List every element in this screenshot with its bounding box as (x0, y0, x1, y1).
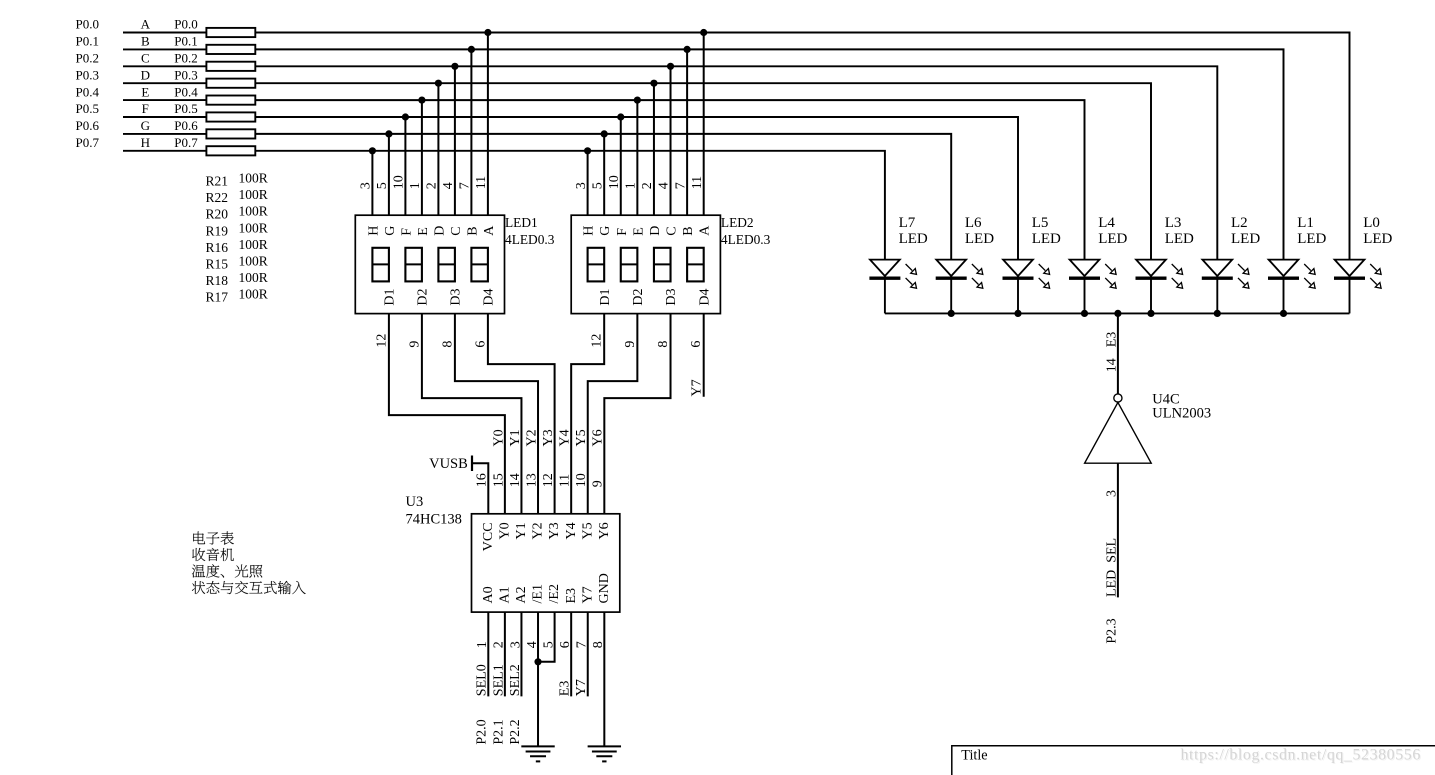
svg-text:https://blog.csdn.net/qq_52380: https://blog.csdn.net/qq_52380556 (1181, 747, 1421, 764)
wire net F row to LED L2 anode (255, 117, 1018, 260)
svg-text:Title: Title (961, 747, 987, 763)
wire LED2 pin 2 (D) (653, 83, 655, 215)
pin number 16 of U3 (475, 473, 490, 487)
pin number 6 of LED2 (D4) (689, 341, 704, 348)
wire net G row to LED L1 anode (255, 134, 951, 260)
svg-text:P0.0: P0.0 (76, 17, 99, 32)
resistor R21 100R (206, 28, 255, 37)
svg-text:Y0: Y0 (497, 522, 512, 539)
svg-text:C: C (141, 51, 150, 66)
wire P0.1 to resistor R22 (123, 48, 206, 50)
wire LED1 pin 4 (C) (454, 66, 456, 215)
title block label Title (961, 747, 987, 763)
wire P0.0 to resistor R21 (123, 32, 206, 34)
svg-text:1: 1 (624, 182, 639, 189)
svg-text:3: 3 (359, 182, 374, 189)
svg-text:100R: 100R (239, 237, 268, 252)
wire U3 pin6 E3 (570, 612, 572, 696)
svg-text:100R: 100R (239, 187, 268, 202)
pin number 12 of LED2 (D1) (590, 334, 605, 348)
pin number 14 of U4C (1105, 358, 1120, 372)
port P2.2 (508, 719, 523, 744)
pin number 5 of LED1 (375, 182, 390, 189)
svg-text:Y6: Y6 (597, 522, 612, 539)
resistor R15 100R (206, 112, 255, 121)
svg-text:D3: D3 (449, 288, 464, 305)
svg-text:Y7: Y7 (690, 379, 705, 396)
svg-text:9: 9 (623, 341, 638, 348)
junction P0.3 at LED2 pin (650, 80, 657, 87)
net label Y5 (574, 429, 589, 446)
wire LED1 D4 to U3 Y3 (488, 314, 555, 514)
wire VUSB to U3 VCC pin 16 (472, 463, 488, 514)
pin number 8 of U3 (591, 641, 606, 648)
net label Y2 (524, 429, 539, 446)
svg-text:P2.3: P2.3 (1105, 618, 1120, 643)
pin number 7 of LED2 (673, 182, 688, 189)
wire U3 pin4 /E1 to ground (537, 612, 539, 746)
wire LED2 D4 net Y7 stub (703, 314, 705, 397)
port P2.0 (475, 719, 490, 744)
svg-text:D1: D1 (383, 288, 398, 305)
wire LED1 pin 11 (A) (487, 33, 489, 216)
designator label L0 LED (1363, 215, 1392, 247)
wire LED2 D2 to U3 Y5 (588, 314, 638, 514)
svg-text:E: E (631, 227, 646, 236)
LED L4 (1069, 260, 1116, 314)
wire LED2 D3 to U3 Y6 (604, 314, 670, 514)
resistor designator labels R21,R22,R20,R19,R16,R15,R18,R17 with values (206, 171, 268, 305)
svg-text:E3: E3 (564, 588, 579, 604)
svg-text:P0.3: P0.3 (76, 67, 99, 82)
svg-text:Y7: Y7 (574, 679, 589, 696)
svg-text:/E2: /E2 (547, 584, 562, 603)
svg-text:100R: 100R (239, 171, 268, 186)
svg-text:10: 10 (392, 175, 407, 189)
node P0.0 labels (76, 17, 198, 32)
designator label L6 LED (965, 215, 994, 247)
svg-text:GND: GND (597, 573, 612, 603)
wire net C row to LED L5 anode (255, 66, 1217, 259)
pin number 9 of LED2 (D2) (623, 341, 638, 348)
net label Y4 (558, 429, 573, 446)
junction P0.1 at LED1 pin (468, 46, 475, 53)
pin number 5 of U3 (541, 641, 556, 648)
pin number 3 of LED1 (359, 182, 374, 189)
svg-text:R16: R16 (206, 240, 229, 255)
wire LED2 pin 10 (F) (620, 117, 622, 215)
junction bus at L2 (1214, 310, 1221, 317)
svg-text:R21: R21 (206, 174, 229, 189)
svg-text:3: 3 (574, 182, 589, 189)
ground symbol 1 (521, 746, 554, 761)
svg-text:A: A (141, 17, 151, 32)
designator label LED2 4LED0.3 (721, 215, 771, 247)
svg-text:11: 11 (474, 176, 489, 189)
junction P0.4 at LED2 pin (634, 97, 641, 104)
svg-text:Y1: Y1 (508, 429, 523, 446)
pin number 1 of LED1 (408, 182, 423, 189)
svg-text:ULN2003: ULN2003 (1152, 406, 1211, 422)
svg-text:Y5: Y5 (580, 522, 595, 539)
wire net D row to LED L4 anode (255, 83, 1151, 259)
svg-text:8: 8 (656, 341, 671, 348)
inverter U4C ULN2003 (1085, 394, 1152, 463)
junction bus at L1 (1280, 310, 1287, 317)
wire U4C pin 3 output (1117, 463, 1119, 597)
designator label L2 LED (1231, 215, 1260, 247)
svg-text:E3: E3 (1105, 332, 1120, 348)
wire LED1 pin 3 (H) (371, 151, 373, 215)
svg-text:P2.0: P2.0 (475, 719, 490, 744)
svg-text:VCC: VCC (481, 522, 496, 551)
pin number 10 of U3 (574, 473, 589, 487)
pin number 7 of LED1 (458, 182, 473, 189)
svg-text:Y4: Y4 (564, 522, 579, 539)
junction P0.2 at LED2 pin (667, 63, 674, 70)
designator label U3 74HC138 (406, 494, 462, 528)
svg-text:D2: D2 (631, 288, 646, 305)
pin number 11 of LED1 (474, 176, 489, 189)
svg-text:LED: LED (1165, 231, 1194, 247)
node P0.4 labels (76, 84, 199, 99)
pin number 4 of LED2 (657, 182, 672, 189)
svg-text:LED: LED (899, 231, 928, 247)
svg-text:13: 13 (524, 473, 539, 487)
svg-text:Y3: Y3 (547, 522, 562, 539)
svg-text:Y1: Y1 (514, 522, 529, 539)
svg-text:B: B (681, 226, 696, 235)
wire U3 pin5 /E2 to pin4 (538, 612, 555, 662)
svg-text:/E1: /E1 (531, 584, 546, 603)
svg-text:P0.0: P0.0 (174, 17, 197, 32)
svg-text:14: 14 (1105, 358, 1120, 372)
net label SEL0 (475, 664, 490, 696)
svg-text:100R: 100R (239, 270, 268, 285)
wire LED2 pin 1 (E) (636, 100, 638, 215)
svg-text:R19: R19 (206, 223, 229, 238)
wire P0.3 to resistor R19 (123, 82, 206, 84)
svg-text:3: 3 (1105, 490, 1120, 497)
pin number 7 of U3 (575, 641, 590, 648)
svg-text:LED: LED (1297, 231, 1326, 247)
svg-text:L3: L3 (1165, 215, 1182, 231)
svg-text:H: H (582, 226, 597, 236)
pin number 6 of LED1 (D4) (473, 341, 488, 348)
svg-text:12: 12 (590, 334, 605, 348)
junction P0.1 at LED2 pin (684, 46, 691, 53)
pin number 3 of U4C (1105, 490, 1120, 497)
resistor R17 100R (206, 146, 255, 155)
wire LED1 pin 2 (D) (437, 83, 439, 215)
svg-text:LED: LED (965, 231, 994, 247)
wire LED cathode bus (885, 312, 1350, 314)
svg-text:L6: L6 (965, 215, 982, 231)
svg-text:74HC138: 74HC138 (406, 511, 462, 527)
junction P0.7 at LED1 pin (369, 147, 376, 154)
junction P0.0 at LED1 pin (484, 29, 491, 36)
svg-text:R15: R15 (206, 256, 229, 271)
svg-text:8: 8 (591, 641, 606, 648)
wire U3 pin2 A1 (SEL1) (504, 612, 506, 696)
svg-text:12: 12 (374, 334, 389, 348)
svg-text:P0.1: P0.1 (174, 34, 197, 49)
LED L0 (1334, 260, 1381, 314)
7-segment display LED1 4LED0.3 body (355, 215, 504, 313)
svg-text:9: 9 (591, 480, 606, 487)
svg-text:P0.4: P0.4 (76, 84, 100, 99)
pin number 11 of U3 (558, 474, 573, 487)
svg-text:5: 5 (375, 182, 390, 189)
resistor R22 100R (206, 45, 255, 54)
svg-text:2: 2 (640, 182, 655, 189)
LED L3 (1136, 260, 1183, 314)
svg-text:LED SEL: LED SEL (1105, 538, 1120, 597)
junction bus at L6 (948, 310, 955, 317)
svg-text:F: F (399, 228, 414, 236)
junction bus at L5 (1014, 310, 1021, 317)
svg-text:14: 14 (508, 473, 523, 487)
svg-text:L5: L5 (1032, 215, 1049, 231)
svg-text:F: F (142, 101, 149, 116)
wire U3 pin8 GND to ground (603, 612, 605, 746)
junction P0.5 at LED1 pin (402, 113, 409, 120)
svg-text:LED2: LED2 (721, 215, 754, 230)
junction P0.0 at LED2 pin (700, 29, 707, 36)
junction P0.4 at LED1 pin (418, 97, 425, 104)
junction P0.5 at LED2 pin (617, 113, 624, 120)
pin number 15 of U3 (491, 473, 506, 487)
designator label L4 LED (1098, 215, 1127, 247)
wire LED2 pin 5 (G) (603, 134, 605, 215)
designator label L1 LED (1297, 215, 1326, 247)
wire LED1 pin 7 (B) (470, 49, 472, 215)
pin number 6 of U3 (558, 641, 573, 648)
svg-text:15: 15 (491, 473, 506, 487)
pin number 1 of U3 (475, 641, 490, 648)
pin number 10 of LED2 (607, 175, 622, 189)
svg-text:L2: L2 (1231, 215, 1248, 231)
svg-text:11: 11 (690, 176, 705, 189)
svg-text:1: 1 (475, 641, 490, 648)
wire LED1 pin 5 (G) (388, 134, 390, 215)
svg-text:LED: LED (1231, 231, 1260, 247)
pin number 12 of U3 (541, 473, 556, 487)
designator label U4C ULN2003 (1152, 391, 1211, 421)
svg-text:16: 16 (475, 473, 490, 487)
port P2.3 (1105, 618, 1120, 643)
designator label L7 LED (899, 215, 928, 247)
wire LED2 pin 4 (C) (670, 66, 672, 215)
svg-text:LED: LED (1363, 231, 1392, 247)
wire net H row to LED L0 anode (255, 151, 885, 260)
svg-text:P0.6: P0.6 (76, 118, 100, 133)
svg-text:E: E (416, 227, 431, 236)
svg-text:LED: LED (1032, 231, 1061, 247)
pin number 13 of U3 (524, 473, 539, 487)
svg-text:P0.6: P0.6 (174, 118, 198, 133)
pin number 2 of U3 (492, 641, 507, 648)
svg-text:D: D (432, 226, 447, 236)
svg-text:G: G (598, 226, 613, 236)
svg-text:4: 4 (441, 182, 456, 189)
svg-text:E3: E3 (558, 681, 573, 697)
svg-text:Y2: Y2 (531, 522, 546, 539)
svg-text:7: 7 (673, 182, 688, 189)
net label SEL1 (491, 664, 506, 696)
svg-text:P0.2: P0.2 (76, 51, 99, 66)
svg-text:P0.7: P0.7 (174, 135, 198, 150)
svg-text:VUSB: VUSB (429, 456, 468, 472)
wire LED2 D1 to U3 Y4 (571, 314, 604, 514)
designator label L3 LED (1165, 215, 1194, 247)
svg-text:12: 12 (541, 473, 556, 487)
svg-text:LED1: LED1 (505, 215, 538, 230)
wire bus to U4C pin 14 (1117, 313, 1119, 393)
pin number 9 of U3 (591, 480, 606, 487)
svg-text:D: D (141, 67, 150, 82)
designator label LED1 4LED0.3 (505, 215, 555, 247)
junction bus at L3 (1147, 310, 1154, 317)
wire LED1 D1 to U3 Y0 (389, 314, 505, 514)
svg-text:A: A (698, 225, 713, 236)
svg-text:H: H (366, 226, 381, 236)
svg-text:L7: L7 (899, 215, 916, 231)
pin number 9 of LED1 (D2) (407, 341, 422, 348)
pin number 4 of U3 (525, 641, 540, 648)
svg-text:D3: D3 (664, 288, 679, 305)
wire LED1 D3 to U3 Y2 (455, 314, 538, 514)
wire U3 pin3 A2 (SEL2) (520, 612, 522, 696)
svg-text:Y6: Y6 (591, 429, 606, 446)
LED L2 (1202, 260, 1249, 314)
wire P0.7 to resistor R17 (123, 150, 206, 152)
svg-text:R17: R17 (206, 289, 229, 304)
svg-text:A1: A1 (497, 586, 512, 603)
wire LED2 pin 11 (A) (703, 33, 705, 216)
node P0.3 labels (76, 67, 198, 82)
svg-text:4LED0.3: 4LED0.3 (505, 232, 555, 247)
net label E3 (558, 681, 573, 697)
junction P0.3 at LED1 pin (435, 80, 442, 87)
svg-text:7: 7 (575, 641, 590, 648)
junction bus at U4C input (1114, 310, 1121, 317)
svg-text:E: E (141, 84, 149, 99)
pin number 8 of LED2 (D3) (656, 341, 671, 348)
pin number 2 of LED1 (425, 182, 440, 189)
svg-text:5: 5 (541, 641, 556, 648)
svg-text:9: 9 (407, 341, 422, 348)
svg-text:C: C (665, 226, 680, 235)
pin number 3 of LED2 (574, 182, 589, 189)
wire U3 pin1 A0 (SEL0) (487, 612, 489, 696)
wire LED2 pin 7 (B) (686, 49, 688, 215)
svg-text:C: C (449, 226, 464, 235)
resistor R20 100R (206, 62, 255, 71)
svg-text:P0.4: P0.4 (174, 84, 198, 99)
svg-text:6: 6 (689, 341, 704, 348)
wire net E row to LED L3 anode (255, 100, 1084, 260)
net label Y7 (690, 379, 705, 396)
svg-text:SEL2: SEL2 (508, 664, 523, 696)
title block frame (952, 746, 1435, 775)
net label LED SEL (1105, 538, 1120, 597)
pin number 4 of LED1 (441, 182, 456, 189)
svg-text:Y3: Y3 (541, 429, 556, 446)
resistor R19 100R (206, 79, 255, 88)
svg-text:G: G (141, 118, 150, 133)
net label Y1 (508, 429, 523, 446)
wire P0.4 to resistor R16 (123, 99, 206, 101)
svg-text:10: 10 (607, 175, 622, 189)
svg-text:P2.1: P2.1 (491, 719, 506, 744)
node P0.7 labels (76, 135, 199, 150)
pin number 5 of LED2 (590, 182, 605, 189)
svg-text:4: 4 (525, 641, 540, 648)
svg-text:Y2: Y2 (524, 429, 539, 446)
svg-text:P0.3: P0.3 (174, 67, 197, 82)
svg-text:F: F (615, 228, 630, 236)
wire U3 pin7 Y7 (587, 612, 589, 696)
resistor R16 100R (206, 96, 255, 105)
svg-text:6: 6 (558, 641, 573, 648)
svg-text:D4: D4 (482, 288, 497, 305)
svg-text:L4: L4 (1098, 215, 1115, 231)
svg-text:D4: D4 (697, 288, 712, 305)
node P0.5 labels (76, 101, 198, 116)
node P0.6 labels (76, 118, 199, 133)
svg-text:R18: R18 (206, 273, 229, 288)
svg-text:100R: 100R (239, 286, 268, 301)
junction pin4/pin5 (534, 658, 541, 665)
LED L6 (936, 260, 983, 314)
svg-text:1: 1 (408, 182, 423, 189)
svg-text:SEL1: SEL1 (491, 664, 506, 696)
svg-text:2: 2 (425, 182, 440, 189)
svg-text:2: 2 (492, 641, 507, 648)
svg-text:Y7: Y7 (580, 586, 595, 603)
svg-text:5: 5 (590, 182, 605, 189)
junction P0.6 at LED1 pin (385, 130, 392, 137)
junction bus at L4 (1081, 310, 1088, 317)
svg-text:10: 10 (574, 473, 589, 487)
wire LED1 D2 to U3 Y1 (422, 314, 522, 514)
svg-text:3: 3 (508, 641, 523, 648)
svg-text:B: B (141, 34, 150, 49)
svg-text:L1: L1 (1297, 215, 1314, 231)
svg-text:D1: D1 (598, 288, 613, 305)
svg-text:4LED0.3: 4LED0.3 (721, 232, 771, 247)
svg-text:4: 4 (657, 182, 672, 189)
wire P0.2 to resistor R20 (123, 65, 206, 67)
net label SEL2 (508, 664, 523, 696)
LED L1 (1268, 260, 1315, 314)
op chip U3 74HC138 body (472, 514, 620, 612)
pin number 8 of LED1 (D3) (440, 341, 455, 348)
resistor R18 100R (206, 129, 255, 138)
svg-text:G: G (383, 226, 398, 236)
svg-text:Y0: Y0 (491, 429, 506, 446)
wire P0.5 to resistor R15 (123, 116, 206, 118)
svg-text:B: B (465, 226, 480, 235)
svg-text:P2.2: P2.2 (508, 719, 523, 744)
svg-text:100R: 100R (239, 204, 268, 219)
svg-text:6: 6 (473, 341, 488, 348)
node P0.1 labels (76, 34, 198, 49)
watermark text (1181, 747, 1422, 765)
svg-text:LED: LED (1098, 231, 1127, 247)
wire LED1 pin 10 (F) (404, 117, 406, 215)
